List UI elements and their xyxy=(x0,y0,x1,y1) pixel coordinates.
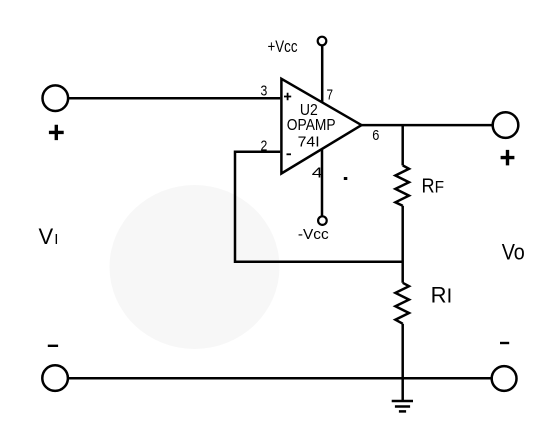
svg-text:6: 6 xyxy=(372,127,379,144)
svg-text:+Vcc: +Vcc xyxy=(268,37,298,56)
svg-text:-Vcc: -Vcc xyxy=(298,226,329,243)
svg-text:2: 2 xyxy=(261,137,268,154)
svg-text:Vo: Vo xyxy=(502,239,525,264)
svg-text:74I: 74I xyxy=(298,133,320,150)
svg-text:OPAMP: OPAMP xyxy=(287,117,336,134)
svg-text:4: 4 xyxy=(312,164,323,181)
svg-text:RF: RF xyxy=(422,176,445,198)
svg-text:RI: RI xyxy=(431,282,453,307)
svg-text:7: 7 xyxy=(327,86,334,103)
svg-text:3: 3 xyxy=(261,83,268,100)
